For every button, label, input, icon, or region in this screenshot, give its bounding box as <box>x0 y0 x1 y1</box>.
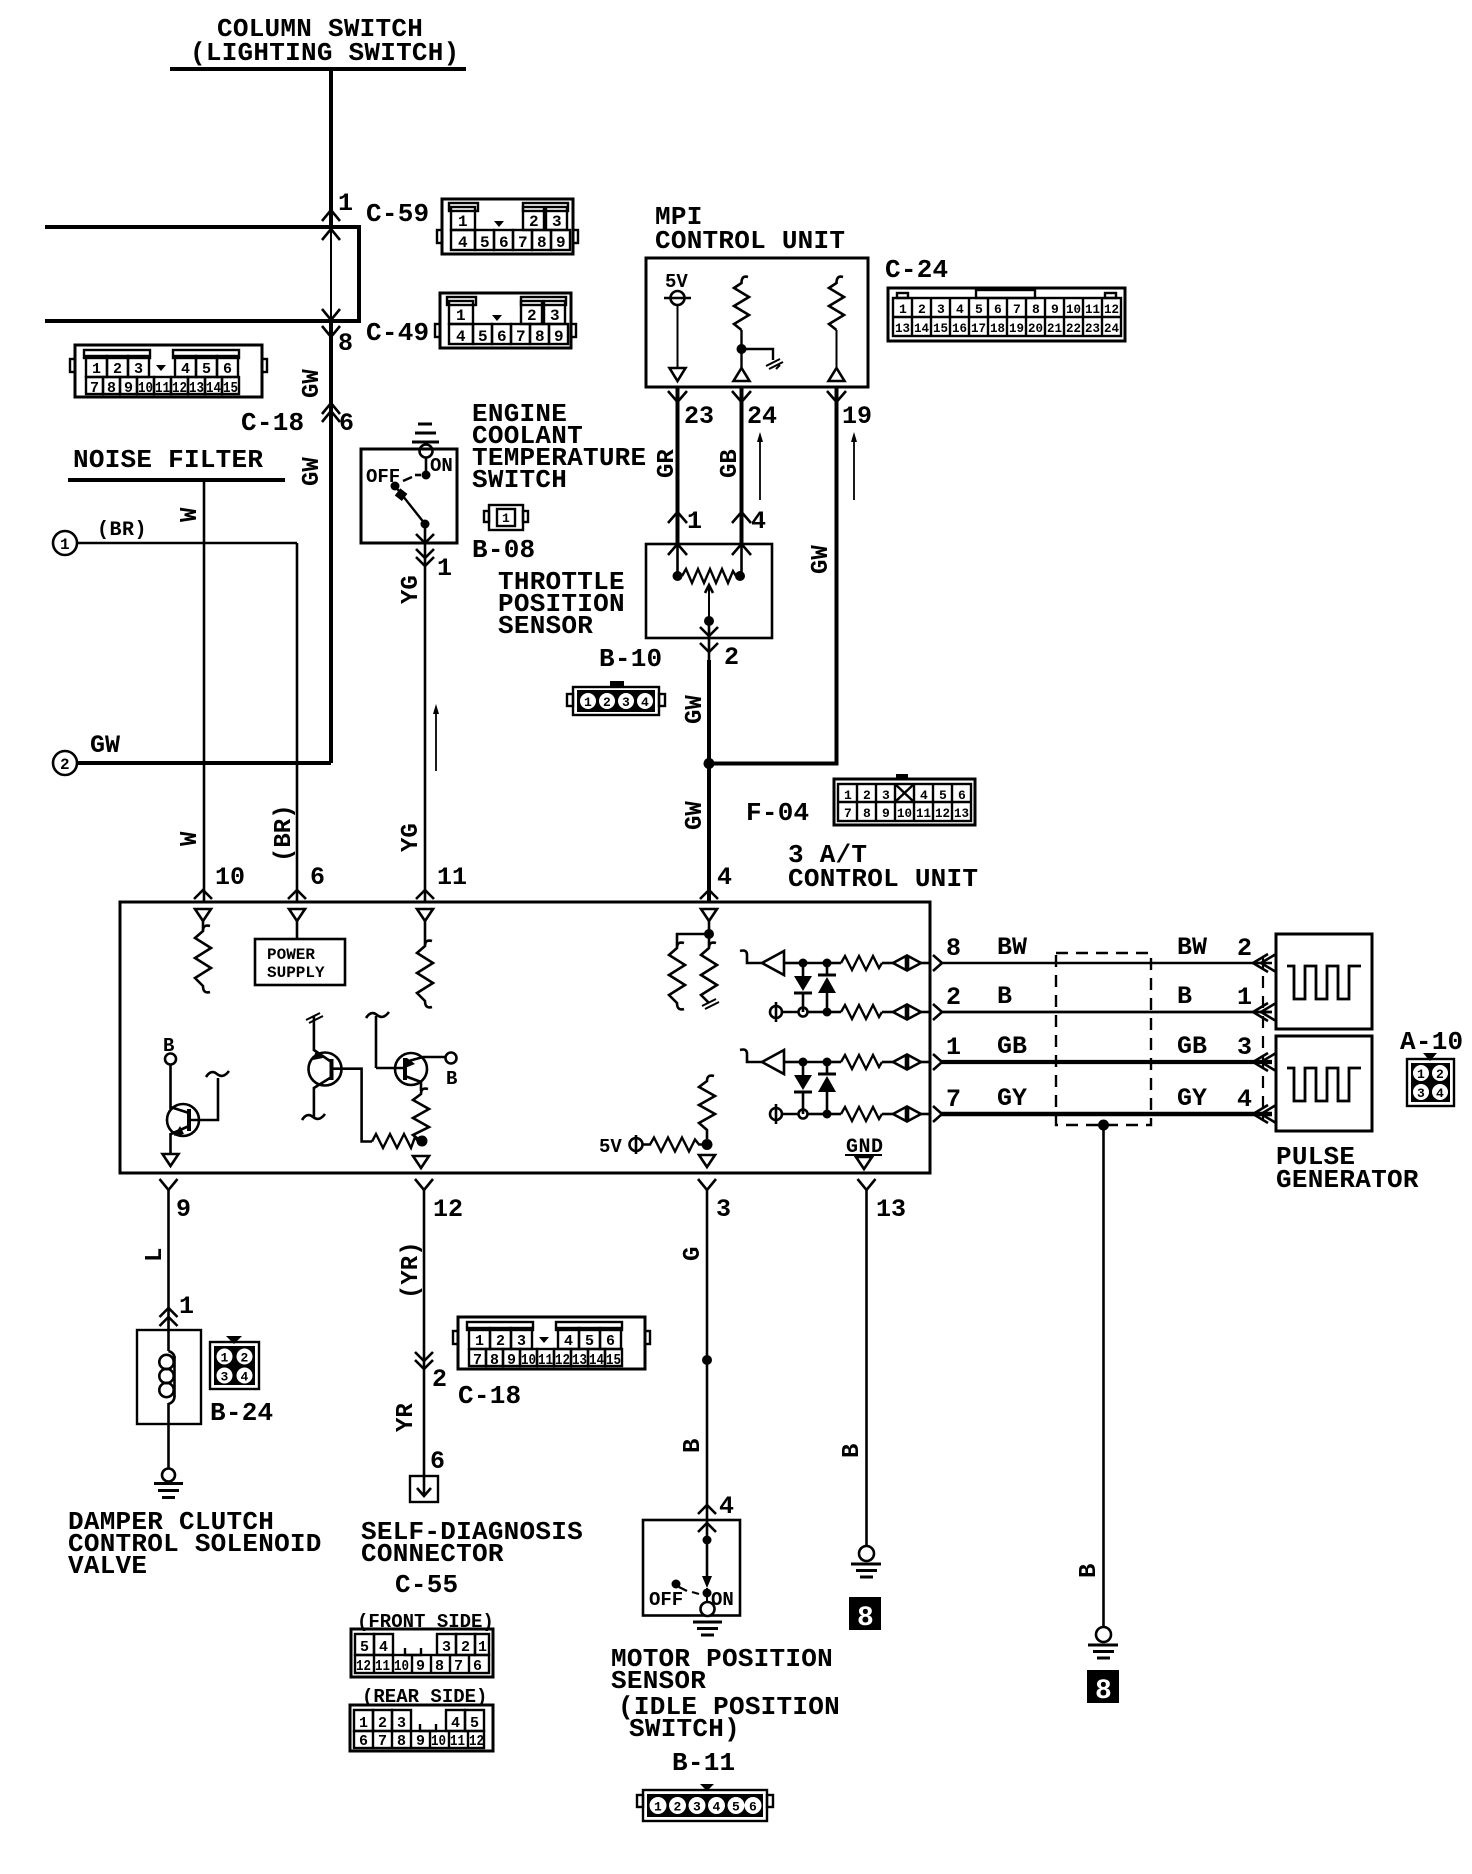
svg-text:W: W <box>177 507 204 522</box>
MPI pin 24 <box>717 387 777 543</box>
svg-text:1: 1 <box>478 1639 487 1656</box>
svg-text:24: 24 <box>1104 321 1119 336</box>
svg-text:7: 7 <box>946 1085 961 1114</box>
connector C-55 front side pinout <box>351 1629 493 1677</box>
svg-text:CONNECTOR: CONNECTOR <box>361 1539 504 1569</box>
flow arrow beside pin 19 wire <box>851 432 857 500</box>
svg-text:4: 4 <box>920 788 928 803</box>
connector B-10 pinout <box>567 681 665 715</box>
svg-text:8: 8 <box>537 234 547 252</box>
svg-text:7: 7 <box>844 806 852 821</box>
svg-text:6: 6 <box>473 1658 482 1675</box>
page reference 8 (left) <box>849 1597 881 1634</box>
svg-text:9: 9 <box>882 806 890 821</box>
svg-text:A-10: A-10 <box>1400 1027 1463 1057</box>
svg-text:3: 3 <box>693 1800 701 1815</box>
svg-text:C-59: C-59 <box>366 199 429 229</box>
svg-text:B: B <box>446 1068 457 1090</box>
svg-text:GW: GW <box>682 801 709 830</box>
svg-text:10: 10 <box>1066 302 1081 317</box>
svg-text:2: 2 <box>918 302 926 317</box>
connector C-18 pinout (lower) <box>453 1317 650 1369</box>
svg-text:GW: GW <box>299 457 326 486</box>
connector C-55 rear side pinout <box>350 1705 493 1751</box>
svg-text:4: 4 <box>719 1492 734 1521</box>
svg-text:11: 11 <box>1085 302 1100 317</box>
svg-text:1: 1 <box>359 1715 368 1732</box>
svg-text:B: B <box>1177 982 1192 1011</box>
svg-text:OFF: OFF <box>649 1589 683 1611</box>
svg-text:3: 3 <box>1237 1033 1252 1062</box>
connector A-10 pinout <box>1407 1053 1454 1106</box>
ground below solenoid valve <box>154 1469 183 1498</box>
A/T bottom pin numbers <box>176 1195 906 1224</box>
connector C-59 pinout <box>437 199 578 254</box>
svg-text:1: 1 <box>179 1292 194 1321</box>
svg-text:8: 8 <box>857 1603 874 1634</box>
wire B from shield to ground (right) <box>1076 1125 1104 1627</box>
wire GW at C-18 pin 6 <box>299 369 354 486</box>
svg-text:4: 4 <box>956 302 964 317</box>
svg-text:3: 3 <box>1417 1086 1425 1101</box>
svg-text:GW: GW <box>90 731 120 760</box>
A/T input pin triangles <box>195 909 717 921</box>
svg-text:11: 11 <box>437 863 467 892</box>
self-diagnosis connector terminal symbol <box>410 1476 438 1502</box>
svg-text:1: 1 <box>1237 983 1252 1012</box>
svg-text:3: 3 <box>716 1195 731 1224</box>
svg-text:7: 7 <box>90 380 99 397</box>
svg-text:15: 15 <box>223 380 238 397</box>
svg-text:4: 4 <box>641 695 649 710</box>
svg-text:8: 8 <box>435 1658 444 1675</box>
throttle position sensor label <box>498 567 625 641</box>
svg-text:2: 2 <box>461 1639 470 1656</box>
svg-text:20: 20 <box>1028 321 1043 336</box>
svg-text:BW: BW <box>1177 933 1207 962</box>
wire chevrons entering A/T unit <box>194 890 718 899</box>
svg-text:4: 4 <box>451 1715 460 1732</box>
svg-text:7: 7 <box>518 234 528 252</box>
chassis ground above coolant switch <box>412 424 439 458</box>
throttle position sensor pins 1 and 4 <box>668 507 766 555</box>
svg-text:12: 12 <box>469 1733 484 1750</box>
svg-text:C-18: C-18 <box>458 1381 521 1411</box>
svg-text:C-24: C-24 <box>885 255 948 285</box>
svg-text:1: 1 <box>844 788 852 803</box>
ground at pin 13 wire <box>851 1546 881 1577</box>
svg-text:8: 8 <box>863 806 871 821</box>
flow arrow beside YG wire <box>433 704 439 771</box>
svg-text:3: 3 <box>442 1639 451 1656</box>
svg-text:3: 3 <box>622 695 630 710</box>
svg-text:ON: ON <box>430 455 453 477</box>
wire W from noise filter <box>177 480 204 902</box>
svg-text:B-08: B-08 <box>472 535 535 565</box>
svg-text:B: B <box>839 1444 866 1458</box>
svg-text:10: 10 <box>138 380 153 397</box>
potentiometer inside TPS <box>673 544 746 672</box>
svg-text:G: G <box>680 1247 707 1261</box>
svg-text:11: 11 <box>155 380 170 397</box>
svg-text:4: 4 <box>241 1370 249 1385</box>
svg-text:14: 14 <box>914 321 929 336</box>
svg-text:2: 2 <box>378 1715 387 1732</box>
svg-text:B: B <box>1076 1564 1103 1578</box>
svg-text:6: 6 <box>310 863 325 892</box>
svg-text:GB: GB <box>717 449 744 478</box>
svg-text:4: 4 <box>1237 1085 1252 1114</box>
svg-text:12: 12 <box>172 380 187 397</box>
pin number labels into A/T unit top <box>215 863 732 892</box>
transistor Q3 <box>366 1012 457 1168</box>
svg-text:3: 3 <box>221 1370 229 1385</box>
wire (BR) <box>77 543 298 902</box>
page reference 8 (right) <box>1087 1670 1119 1707</box>
svg-text:8: 8 <box>946 934 961 963</box>
svg-text:14: 14 <box>206 380 221 397</box>
3 A/T control unit label <box>788 840 978 894</box>
wire G/B from pin 3 to motor position sensor <box>680 1190 734 1532</box>
svg-text:B-10: B-10 <box>599 644 662 674</box>
svg-text:4: 4 <box>181 361 190 378</box>
svg-text:9: 9 <box>176 1195 191 1224</box>
self-diagnosis connector label <box>361 1517 583 1600</box>
svg-text:10: 10 <box>431 1733 446 1750</box>
svg-text:6: 6 <box>958 788 966 803</box>
svg-text:1: 1 <box>502 511 510 526</box>
transistor Q1 <box>163 1035 230 1166</box>
svg-text:6: 6 <box>339 409 354 438</box>
svg-text:5: 5 <box>470 1715 479 1732</box>
connector B-11 pinout <box>637 1784 773 1821</box>
svg-text:2: 2 <box>674 1800 682 1815</box>
output wire BW row 1 <box>933 933 1276 972</box>
svg-text:1: 1 <box>654 1800 662 1815</box>
svg-text:SWITCH: SWITCH <box>472 465 567 495</box>
svg-text:1: 1 <box>338 189 353 218</box>
svg-text:2: 2 <box>432 1365 447 1394</box>
wire GW from TPS pin 2 <box>682 660 715 902</box>
svg-text:5V: 5V <box>599 1136 622 1158</box>
svg-text:2: 2 <box>946 983 961 1012</box>
svg-text:12: 12 <box>1104 302 1119 317</box>
connector B-24 pinout <box>210 1336 259 1389</box>
wire YG from coolant switch <box>398 543 452 902</box>
node 1 terminal circle <box>53 519 147 555</box>
svg-text:B: B <box>997 982 1012 1011</box>
svg-text:13: 13 <box>876 1195 906 1224</box>
svg-text:4: 4 <box>458 234 468 252</box>
svg-text:17: 17 <box>971 321 986 336</box>
svg-text:9: 9 <box>416 1733 425 1750</box>
svg-text:SWITCH): SWITCH) <box>629 1714 740 1744</box>
svg-text:GB: GB <box>1177 1032 1207 1061</box>
svg-text:C-49: C-49 <box>366 318 429 348</box>
svg-text:9: 9 <box>556 234 566 252</box>
clamp diode pair block 2 <box>794 1062 836 1114</box>
5V node at pin 3 <box>599 1076 715 1167</box>
svg-text:24: 24 <box>747 402 777 431</box>
svg-text:1: 1 <box>437 554 452 583</box>
svg-text:1: 1 <box>946 1033 961 1062</box>
svg-text:CONTROL UNIT: CONTROL UNIT <box>655 226 845 256</box>
sensor input amp block 2 top row <box>740 1050 930 1075</box>
svg-text:9: 9 <box>124 380 133 397</box>
svg-text:2: 2 <box>1436 1067 1444 1082</box>
damper clutch control solenoid valve label <box>68 1507 322 1581</box>
svg-text:(BR): (BR) <box>271 804 298 862</box>
svg-text:5V: 5V <box>665 271 688 293</box>
svg-text:19: 19 <box>1009 321 1024 336</box>
svg-text:6: 6 <box>499 234 509 252</box>
svg-text:6: 6 <box>749 1800 757 1815</box>
svg-text:GW: GW <box>682 695 709 724</box>
svg-text:6: 6 <box>994 302 1002 317</box>
resistor at pin 10 <box>195 921 211 992</box>
svg-text:B-24: B-24 <box>210 1398 273 1428</box>
connector C-18 pinout (top) <box>70 345 267 397</box>
connector C-24 pinout <box>68 288 1463 1821</box>
svg-text:8: 8 <box>338 329 353 358</box>
svg-text:5: 5 <box>480 234 490 252</box>
svg-text:W: W <box>177 831 204 846</box>
shielded cable dashed box <box>1056 953 1151 1131</box>
svg-text:9: 9 <box>1051 302 1059 317</box>
svg-text:16: 16 <box>952 321 967 336</box>
svg-text:22: 22 <box>1066 321 1081 336</box>
svg-text:SUPPLY: SUPPLY <box>267 964 325 982</box>
wire GW from node 2 <box>77 761 331 765</box>
pulse generator dashed boundary <box>1262 956 1264 1121</box>
svg-text:8: 8 <box>1032 302 1040 317</box>
transistor Q2 <box>302 1013 428 1148</box>
svg-text:B-11: B-11 <box>672 1748 735 1778</box>
svg-text:1: 1 <box>221 1351 229 1366</box>
pulse generator label <box>1276 1142 1419 1195</box>
wire column switch to C-59 pin 1 <box>322 69 353 227</box>
MPI control unit label <box>655 202 845 256</box>
pulse generator box 2 <box>1276 1036 1372 1131</box>
svg-text:2: 2 <box>113 361 122 378</box>
svg-text:15: 15 <box>933 321 948 336</box>
svg-text:12: 12 <box>935 806 950 821</box>
sensor input amp block 2 bottom row <box>770 1104 930 1124</box>
svg-text:1: 1 <box>1417 1067 1425 1082</box>
throttle position sensor box <box>646 544 772 638</box>
svg-text:6: 6 <box>430 1447 445 1476</box>
svg-text:10: 10 <box>215 863 245 892</box>
wire L from pin 9 <box>142 1190 194 1330</box>
svg-text:1: 1 <box>458 213 468 231</box>
svg-text:C-18: C-18 <box>241 408 304 438</box>
svg-text:GW: GW <box>299 369 326 398</box>
wire C-49 pin 8 <box>322 321 353 763</box>
svg-text:18: 18 <box>990 321 1005 336</box>
svg-text:2: 2 <box>529 213 539 231</box>
column switch (lighting switch) label <box>170 14 466 69</box>
flow arrow beside GB wire <box>757 432 763 500</box>
svg-text:5: 5 <box>732 1800 740 1815</box>
wire (YR) from pin 12 <box>393 1190 447 1476</box>
svg-text:1: 1 <box>92 361 101 378</box>
connector B-08 pinout <box>484 505 528 530</box>
connector C-49 pinout <box>435 293 576 348</box>
svg-text:(YR): (YR) <box>398 1241 425 1299</box>
svg-text:C-55: C-55 <box>395 1570 458 1600</box>
svg-text:1: 1 <box>687 507 702 536</box>
svg-text:NOISE FILTER: NOISE FILTER <box>73 445 263 475</box>
svg-text:21: 21 <box>1047 321 1062 336</box>
A/T bottom pin chevrons <box>160 1179 876 1190</box>
svg-text:3: 3 <box>134 361 143 378</box>
noise filter label <box>68 445 285 480</box>
resistor pair at pin 4 <box>669 921 719 1009</box>
svg-text:6: 6 <box>359 1733 368 1750</box>
svg-text:GB: GB <box>997 1032 1027 1061</box>
power supply block at pin 6 <box>255 921 345 985</box>
svg-text:7: 7 <box>454 1658 463 1675</box>
svg-text:4: 4 <box>1436 1086 1444 1101</box>
svg-text:23: 23 <box>684 402 714 431</box>
svg-text:BW: BW <box>997 933 1027 962</box>
MPI pin 23 <box>654 387 714 543</box>
svg-text:5: 5 <box>939 788 947 803</box>
resistor in MPI (pin 19) <box>829 277 845 381</box>
svg-text:10: 10 <box>394 1658 409 1675</box>
clamp diode pair block 1 <box>794 963 836 1012</box>
svg-text:7: 7 <box>1013 302 1021 317</box>
svg-text:8: 8 <box>107 380 116 397</box>
svg-text:GW: GW <box>808 545 835 574</box>
wire B from pin 13 to ground <box>839 1190 867 1546</box>
svg-text:POWER: POWER <box>267 946 315 964</box>
svg-text:5: 5 <box>202 361 211 378</box>
svg-text:2: 2 <box>724 643 739 672</box>
svg-text:3: 3 <box>937 302 945 317</box>
svg-text:3: 3 <box>397 1715 406 1732</box>
engine coolant temperature switch box <box>361 449 457 543</box>
3 A/T control unit box <box>120 902 930 1173</box>
svg-text:B: B <box>680 1439 707 1453</box>
svg-text:8: 8 <box>1095 1676 1112 1707</box>
svg-text:1: 1 <box>60 536 70 554</box>
svg-text:9: 9 <box>416 1658 425 1675</box>
svg-text:(LIGHTING SWITCH): (LIGHTING SWITCH) <box>190 38 460 68</box>
svg-text:4: 4 <box>751 507 766 536</box>
svg-text:23: 23 <box>1085 321 1100 336</box>
svg-text:12: 12 <box>356 1658 371 1675</box>
svg-text:5: 5 <box>360 1639 369 1656</box>
svg-text:YG: YG <box>398 823 425 852</box>
svg-text:GR: GR <box>654 449 681 478</box>
svg-text:VALVE: VALVE <box>68 1551 147 1581</box>
sensor input amp block 1 bottom row <box>770 1002 930 1022</box>
svg-text:CONTROL UNIT: CONTROL UNIT <box>788 864 978 894</box>
5V source inside MPI <box>664 271 691 381</box>
svg-text:6: 6 <box>223 361 232 378</box>
svg-text:11: 11 <box>450 1733 465 1750</box>
svg-text:3: 3 <box>552 213 562 231</box>
output wire GY row 4 <box>933 1084 1276 1123</box>
svg-text:F-04: F-04 <box>746 798 809 828</box>
svg-text:7: 7 <box>378 1733 387 1750</box>
svg-text:GENERATOR: GENERATOR <box>1276 1165 1419 1195</box>
svg-text:13: 13 <box>895 321 910 336</box>
svg-text:2: 2 <box>60 756 70 774</box>
svg-text:L: L <box>142 1248 169 1262</box>
output wire GB row 3 <box>933 1032 1276 1071</box>
svg-text:13: 13 <box>189 380 204 397</box>
connector F-04 pinout <box>834 774 975 825</box>
svg-text:19: 19 <box>842 402 872 431</box>
output wire B row 2 <box>933 982 1276 1021</box>
svg-text:(BR): (BR) <box>97 519 147 542</box>
resistor at pin 11 <box>417 921 433 1007</box>
resistor in MPI (pin 24) <box>734 277 784 381</box>
svg-text:1: 1 <box>584 695 592 710</box>
damper clutch control solenoid valve <box>137 1330 201 1469</box>
svg-text:1: 1 <box>899 302 907 317</box>
svg-text:2: 2 <box>603 695 611 710</box>
engine coolant temperature switch label <box>472 399 646 495</box>
GND pin 13 inside A/T <box>845 1136 884 1169</box>
node 2 terminal circle <box>53 731 120 775</box>
MPI control unit box <box>646 258 868 387</box>
svg-text:GY: GY <box>997 1084 1027 1113</box>
motor position sensor label <box>611 1644 840 1744</box>
svg-text:13: 13 <box>954 806 969 821</box>
svg-text:4: 4 <box>713 1800 721 1815</box>
svg-text:11: 11 <box>375 1658 390 1675</box>
svg-text:4: 4 <box>717 863 732 892</box>
svg-text:3: 3 <box>882 788 890 803</box>
svg-text:YG: YG <box>398 575 425 604</box>
motor position sensor box <box>643 1520 740 1616</box>
svg-text:5: 5 <box>975 302 983 317</box>
pulse generator box 1 <box>1276 934 1372 1029</box>
svg-text:GY: GY <box>1177 1084 1207 1113</box>
svg-text:4: 4 <box>379 1639 388 1656</box>
svg-text:2: 2 <box>863 788 871 803</box>
svg-text:2: 2 <box>241 1351 249 1366</box>
svg-text:10: 10 <box>897 806 912 821</box>
svg-text:12: 12 <box>433 1195 463 1224</box>
sensor input amp block 1 top row <box>740 951 930 976</box>
junction rails C-59/C-49 <box>45 225 359 323</box>
svg-text:11: 11 <box>916 806 931 821</box>
svg-text:YR: YR <box>393 1403 420 1432</box>
svg-text:8: 8 <box>397 1733 406 1750</box>
svg-text:2: 2 <box>1237 934 1252 963</box>
MPI pin 19 wire GW <box>709 387 872 764</box>
svg-text:SENSOR: SENSOR <box>498 611 593 641</box>
ground below motor position sensor <box>693 1602 722 1635</box>
ground at right B wire <box>1088 1627 1118 1658</box>
